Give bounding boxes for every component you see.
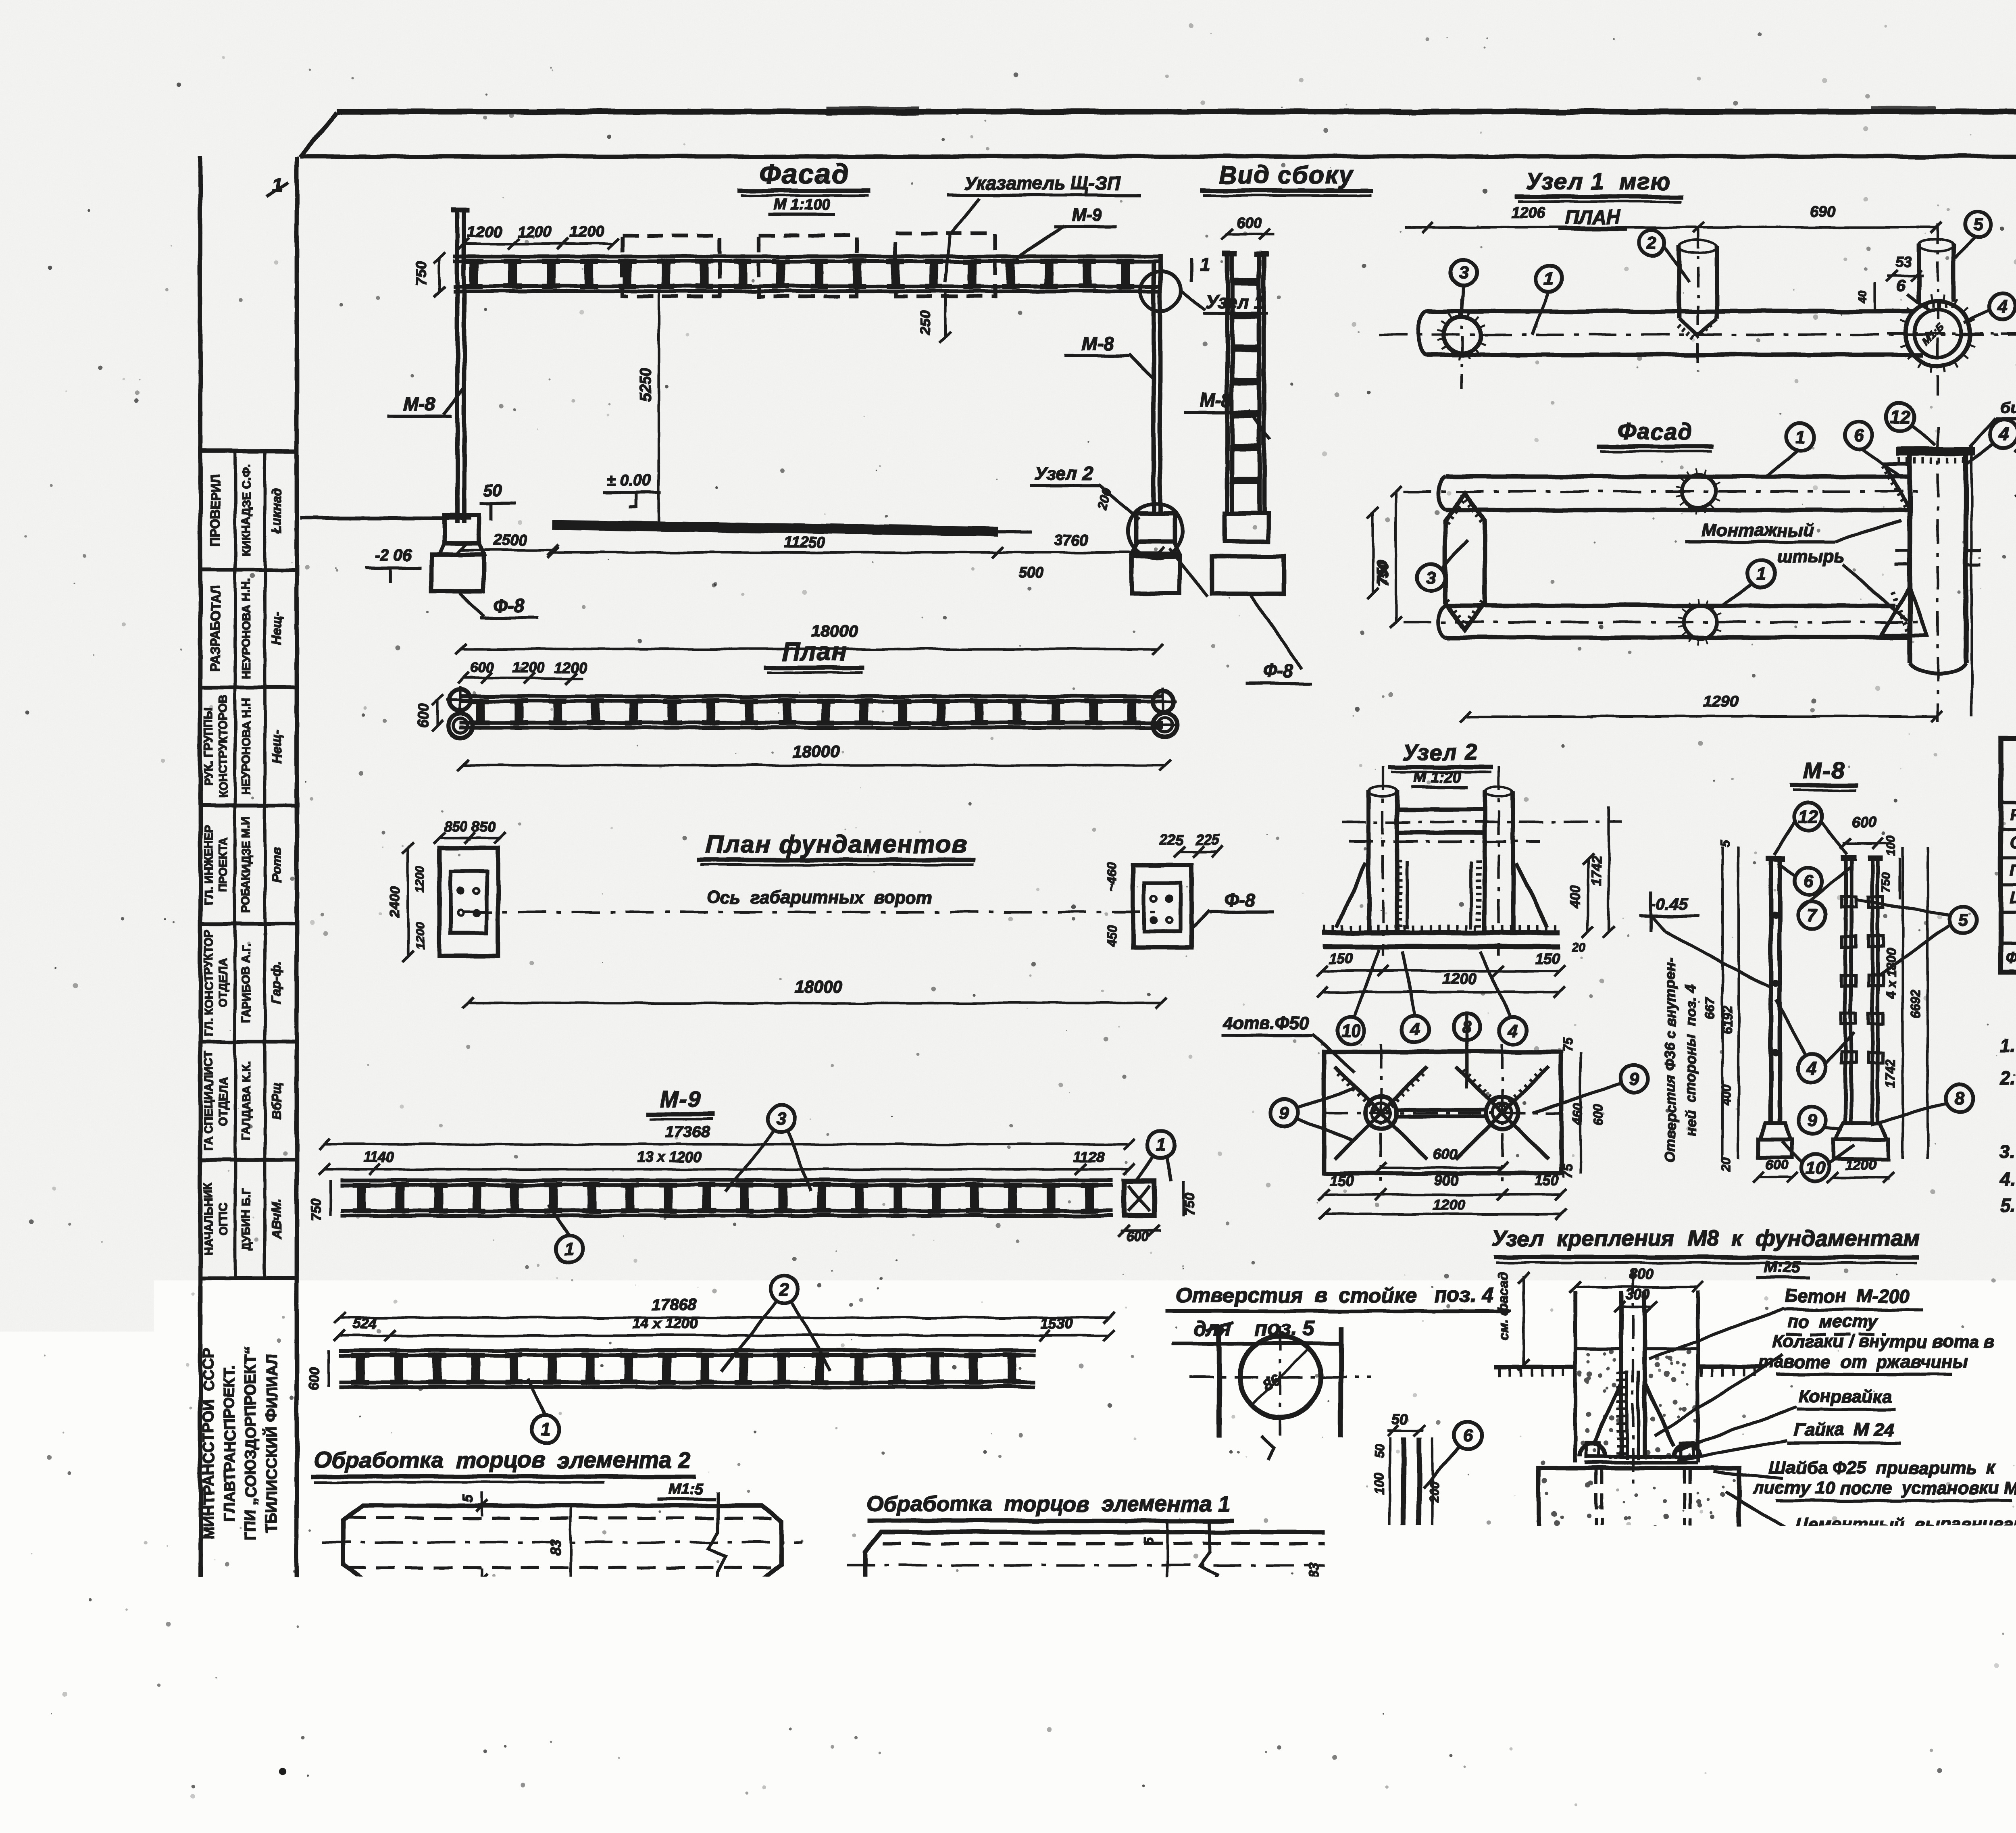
svg-text:7: 7 [1807,905,1818,925]
uzel1 pipe body [1427,309,1914,314]
svg-text:50: 50 [1372,1444,1387,1459]
sheet outer top border [337,109,2016,115]
fasad-detail dim 1290 [1465,715,1937,718]
fasad-detail right column pipe [1908,455,1912,663]
uzel2 anchor sleeves hatched [1397,861,1402,926]
svg-text:Łикнад: Łикнад [269,487,284,533]
svg-text:ОГПС: ОГПС [217,1203,230,1235]
svg-text:План фундаментов: План фундаментов [706,831,968,858]
fasad sign plate 3 (dashed) [896,233,995,296]
sheet outer left border [198,156,203,1716]
svg-text:850: 850 [444,818,468,835]
svg-text:750: 750 [308,1198,324,1221]
svg-text:АВчМ.: АВчМ. [269,1199,284,1239]
fasad dim 5250 rotated [658,291,660,524]
svg-text:Ось габаритных ворот: Ось габаритных ворот [706,887,932,907]
М-8 balloon 10 [1801,1154,1829,1181]
side view column rungs [1231,279,1260,286]
uzel1 middle pipe stub [1677,246,1681,319]
element-1 break mark [1200,1520,1218,1613]
svg-text:Колгаки / внутри вота в: Колгаки / внутри вота в [1773,1332,1995,1352]
svg-text:НАЧАЛЬНИК: НАЧАЛЬНИК [202,1182,215,1256]
svg-text:Отверстия в стойке поз. 4: Отверстия в стойке поз. 4 [1176,1284,1494,1307]
svg-text:1: 1 [564,1239,574,1259]
svg-text:ГЛ. КОНСТРУКТОР: ГЛ. КОНСТРУКТОР [202,929,215,1037]
svg-text:600: 600 [1433,1146,1458,1162]
svg-text:1200: 1200 [467,224,502,241]
svg-text:ТК: ТК [1758,1580,1804,1621]
svg-text:Ригель М-9: Ригель М-9 [2010,806,2016,824]
svg-text:М1:5: М1:5 [668,1481,703,1498]
uzel-f threaded rod hatched [1625,1371,1629,1460]
element-1 centerline [847,1564,1435,1566]
svg-text:17868: 17868 [1057,1636,1100,1653]
leader from node2 to foundation [1169,548,1208,597]
uzel2 balloons 10 4 8 4 [1337,1017,1364,1044]
uzel-f soil hatch right [1702,1368,1754,1377]
uzel2 centerlines [1342,821,1622,823]
svg-text:слой: слой [1799,1536,1842,1556]
М-8 right column ladder rails [1843,861,1847,1123]
svg-text:КОНСТРУКТОРОВ: КОНСТРУКТОРОВ [217,695,230,798]
uzel1 right big circle [1906,301,1970,366]
svg-text:листу 10 после установки М-8: листу 10 после установки М-8 [1752,1478,2016,1498]
svg-text:РМ- 4. Конструкция рамы д: РМ- 4. Конструкция рамы для навески [1867,1633,2016,1653]
svg-text:тавоте от ржавчины: тавоте от ржавчины [1758,1352,1968,1372]
svg-text:53: 53 [1895,254,1912,270]
svg-text:М-9: М-9 [660,1086,701,1112]
right foundation plan inner [1144,883,1181,931]
uzel1 top dim line [1404,226,1936,229]
svg-text:500: 500 [1019,564,1043,581]
svg-text:600: 600 [306,1368,322,1391]
svg-text:6: 6 [1463,1426,1473,1446]
svg-text:МИНТРАНССТРОЙ СССР: МИНТРАНССТРОЙ СССР [199,1348,217,1539]
svg-text:250: 250 [917,310,934,335]
fasad beam М-9 (ladder) [453,254,1158,258]
title block ТК cell [1808,1571,1813,1677]
fasad-detail balloon 4 [1990,420,2016,448]
svg-text:10: 10 [829,1599,845,1615]
fasad dim 2500 [461,549,553,551]
fasad dim 18000 [461,648,1158,650]
svg-text:690: 690 [1810,204,1835,221]
uzel2 plan balloons 9 [1270,1099,1298,1127]
fasad-detail column break bottom [1910,663,1966,674]
beam-2 balloon 2 with leaders [771,1276,798,1303]
svg-text:750: 750 [413,262,430,286]
svg-text:4. Чертеж фундамента см. лис: 4. Чертеж фундамента см. лист № 71. [1999,1169,2016,1189]
svg-text:4: 4 [1999,424,2009,444]
uzel2 right gusset [1516,863,1547,927]
uzel2 dim 400 rotated [1587,859,1589,931]
element-2 centerline [323,1541,802,1543]
svg-text:КИКНАДЗЕ С.Ф.: КИКНАДЗЕ С.Ф. [240,464,253,556]
М-8 balloon 5 with leaders [1949,906,1977,934]
left foundation plan outer [439,848,498,956]
svg-text:5: 5 [1718,839,1733,847]
svg-text:Узел крепления М8 к фундам: Узел крепления М8 к фундаментам [1491,1225,1920,1251]
uzel-f block dashed verticals [1594,1468,1597,1586]
stamp column row dividers [200,567,297,571]
node 1 circle on fasad [1140,271,1181,311]
uzel2 plan centerlines [1324,1112,1561,1114]
svg-text:1200: 1200 [554,659,587,676]
svg-text:50.5: 50.5 [1427,1527,1441,1553]
beam-2 ladder [339,1348,1035,1352]
fasad-detail vertical tick right [1970,446,1973,717]
svg-text:17848: 17848 [1059,1608,1102,1625]
svg-text:~460: ~460 [1104,862,1119,892]
svg-text:5: 5 [460,1593,476,1601]
svg-text:5: 5 [460,1494,476,1502]
fasad-detail lower gusset [1881,587,1926,635]
svg-text:Фундамент Ф-8: Фундамент Ф-8 [2006,950,2016,966]
uzel1 left circle vertical centerline [1461,298,1463,389]
side view column caps [1223,251,1237,257]
svg-text:ОТДЕЛА: ОТДЕЛА [217,958,230,1007]
М-9 balloon 3 with leaders [768,1105,796,1133]
svg-text:Стойка М-8: Стойка М-8 [2010,834,2016,852]
uzel1 right centerlines [1937,224,1939,399]
leader from Указатель to sign plate [946,198,980,282]
svg-text:Узел 1: Узел 1 [1206,292,1264,312]
fasad right column М-8 [1152,261,1156,513]
element-2 break mark [708,1492,726,1593]
svg-text:100: 100 [1885,836,1898,856]
svg-text:Конрвайка: Конрвайка [1799,1387,1891,1406]
svg-text:50: 50 [484,482,502,500]
uzel-f leaders to labels [1649,1309,1783,1359]
svg-text:200: 200 [1427,1481,1441,1503]
svg-text:9: 9 [1279,1103,1289,1123]
svg-text:Нещ-: Нещ- [269,730,284,763]
fasad-detail balloon 6 [1845,422,1872,449]
sheet top-left fold diagonal [300,112,337,157]
svg-text:см. фасад: см. фасад [1496,1272,1511,1341]
post section vertical lines [1217,1327,1222,1437]
plate-6 balloon 6 [1454,1422,1482,1449]
svg-text:4: 4 [1807,1058,1817,1078]
svg-text:Узел 1 мгю: Узел 1 мгю [1526,169,1672,195]
stamp column sub-dividers [233,451,237,1278]
svg-text:450: 450 [1104,925,1119,947]
svg-text:Ротв: Ротв [269,847,284,882]
svg-text:1128: 1128 [1073,1149,1104,1165]
svg-text:13 x 1200: 13 x 1200 [637,1149,702,1165]
svg-text:20: 20 [336,1622,353,1638]
fasad-detail weld circle lower [1684,606,1717,639]
svg-text:2: 2 [1647,233,1657,253]
svg-text:по месту: по месту [1788,1312,1879,1331]
svg-text:9: 9 [1629,1069,1639,1089]
svg-text:М-9: М-9 [1071,205,1102,225]
М-8 left column holes [1773,913,1778,918]
side view column rails [1225,256,1230,513]
svg-text:83: 83 [1306,1563,1322,1578]
svg-text:5: 5 [1958,910,1968,930]
svg-text:М 1:20: М 1:20 [1414,769,1461,786]
svg-text:М-8: М-8 [1081,333,1114,354]
uzel-f washer plate rows [1585,1454,1697,1458]
side view dim 750 rotated [1372,513,1374,594]
svg-text:Бетон М-200: Бетон М-200 [1784,1285,1910,1306]
svg-text:900: 900 [1434,1172,1458,1189]
svg-text:400: 400 [1719,1084,1733,1106]
М-9 balloon 1 with leader [556,1235,583,1263]
uzel-f pipe [1619,1291,1624,1456]
uzel1 left weld circle [1444,317,1480,353]
fasad right foundation pedestal [1136,513,1175,542]
svg-text:42.5: 42.5 [336,1591,365,1607]
svg-text:ДУБИН Б.Г: ДУБИН Б.Г [240,1188,253,1250]
fasad-detail weld circle upper [1682,475,1715,508]
svg-text:Узел 2: Узел 2 [1402,739,1479,765]
svg-text:6: 6 [1896,277,1906,295]
node 2 circle on fasad [1128,503,1183,558]
fasad left foundation pedestal [444,515,479,544]
fasad left column М-8 [455,209,460,523]
svg-text:Шайба Ф 25: Шайба Ф 25 [2010,889,2016,906]
fasad sign plate 1 (dashed) [622,235,720,296]
post section circle [1240,1337,1320,1417]
svg-text:Шайба Ф25 приварить к: Шайба Ф25 приварить к [1769,1458,1997,1478]
left foundation plan inner [450,871,487,933]
fasad-detail balloon 3 [1417,564,1445,591]
svg-text:Отверстие Ф17: Отверстие Ф17 [1332,1625,1491,1646]
svg-text:150: 150 [1330,1172,1354,1189]
svg-text:20: 20 [1571,940,1586,954]
svg-text:524: 524 [353,1315,377,1332]
foundation plan centerline [464,911,1161,913]
svg-text:ВбРщ: ВбРщ [269,1082,284,1120]
uzel1 middle centerline [1697,229,1699,371]
svg-text:1973г: 1973г [1752,1643,1808,1666]
svg-text:ГЛАВТРАНСПРОЕКТ.: ГЛАВТРАНСПРОЕКТ. [221,1365,238,1522]
svg-text:150: 150 [1535,1172,1559,1189]
svg-text:42 5: 42 5 [754,1591,783,1607]
element-1 bar outline [865,1532,1423,1599]
svg-text:9: 9 [1807,1110,1817,1130]
sostav header lines [2001,800,2016,804]
svg-text:указательных знаков: указательных знаков [1945,1656,2016,1675]
svg-text:1: 1 [1156,1135,1166,1155]
svg-text:Обработка торцов элемента 2: Обработка торцов элемента 2 [314,1447,690,1473]
svg-text:Ф-8: Ф-8 [1225,889,1256,910]
sostav row lines [2001,828,2016,831]
uzel-f right cap dome [1674,1443,1700,1456]
right foundation plan outer [1133,865,1191,948]
svg-text:12: 12 [1799,807,1818,827]
svg-text:6: 6 [1148,1608,1162,1616]
svg-text:225: 225 [1159,831,1184,848]
svg-text:Д О Р О Ж Н Ы Е З Н А К И: Д О Р О Ж Н Ы Е З Н А К И [1918,1590,2016,1614]
svg-text:-0.45: -0.45 [1651,895,1688,913]
fasad dim 11250 [553,551,998,554]
svg-text:750: 750 [1374,560,1390,585]
svg-text:Отверстия Ф36 с внутрен-: Отверстия Ф36 с внутрен- [1662,958,1679,1163]
post section centerlines [1189,1376,1371,1378]
svg-text:600: 600 [1237,215,1261,231]
svg-text:М-8: М-8 [1804,758,1845,783]
svg-text:5: 5 [1141,1537,1156,1545]
svg-text:150: 150 [1329,950,1353,967]
svg-text:Гар-ф.: Гар-ф. [269,962,284,1004]
svg-text:1200: 1200 [570,224,604,241]
svg-text:РОБАКИДЗЕ М.И: РОБАКИДЗЕ М.И [240,816,253,913]
post section bottom break [1262,1435,1274,1460]
svg-text:ПРОВЕРИЛ: ПРОВЕРИЛ [208,474,223,546]
fasad-detail balloon 1 upper [1787,423,1814,451]
svg-text:6692: 6692 [1908,989,1923,1018]
plan right end circles [1152,691,1173,712]
svg-text:6192: 6192 [1720,1006,1735,1034]
plate-6 vertical plate lines [1401,1437,1406,1575]
svg-text:2500: 2500 [493,532,527,549]
svg-text:ТБИЛИССКИЙ ФИЛИАЛ: ТБИЛИССКИЙ ФИЛИАЛ [262,1354,280,1533]
svg-text:3760: 3760 [1054,532,1089,549]
svg-text:4: 4 [1997,297,2007,317]
svg-text:± 0.00: ± 0.00 [607,472,652,489]
svg-text:Гайка М 24: Гайка М 24 [1794,1420,1893,1439]
fasad-detail top plate [1896,447,1975,456]
foundation plan dim 18000 [468,1002,1161,1004]
svg-text:Узел 2: Узел 2 [1034,463,1093,484]
svg-text:600: 600 [1766,1157,1789,1173]
svg-text:517: 517 [552,1587,578,1604]
svg-text:17868: 17868 [652,1296,697,1313]
svg-text:1200: 1200 [1443,971,1477,987]
svg-text:460: 460 [1570,1103,1585,1125]
uzel2 anchor plan tie bar [1397,1108,1486,1111]
ground line (thick) [553,525,998,531]
svg-text:НЕУРОНОВА Н.Н: НЕУРОНОВА Н.Н [240,698,253,796]
svg-text:40: 40 [1856,290,1868,303]
sheet inner bottom border [297,1675,2016,1680]
svg-text:1742: 1742 [1883,1059,1897,1087]
uzel2 right pipe [1483,790,1487,931]
М-8 balloon 9 [1798,1106,1826,1133]
uzel-f block speckles [1542,1478,1738,1581]
fasad-detail upper pipe [1445,475,1910,479]
svg-text:18000: 18000 [792,742,839,761]
svg-text:600: 600 [415,704,431,728]
fasad sign plate 2 (dashed) [759,235,856,296]
fasad-detail left connector (поз.3) [1445,493,1485,630]
uzel1 balloon 5 [1965,211,1991,237]
svg-text:1: 1 [1544,269,1554,289]
svg-text:Фасад: Фасад [1617,419,1693,445]
svg-text:83: 83 [547,1539,564,1556]
left foundation dim 2400 rotated [407,848,409,956]
svg-text:11250: 11250 [784,534,825,551]
М-8 balloon 8 [1946,1085,1973,1112]
svg-text:1200: 1200 [1845,1157,1876,1173]
fasad-detail centerlines [1403,490,1927,493]
uzel-f pipe centerline [1632,1270,1634,1484]
svg-text:Монтажный: Монтажный [1702,521,1814,540]
svg-text:5. Деталь крепления указате: 5. Деталь крепления указателей к риге- [2000,1195,2016,1216]
svg-text:10: 10 [1341,1021,1361,1041]
svg-text:1: 1 [1795,427,1805,447]
svg-text:-2 06: -2 06 [375,546,412,564]
М-9 end section square [1124,1181,1154,1216]
stamp column top line [200,449,297,454]
uzel-f right gusset [1645,1383,1674,1446]
svg-text:3: 3 [1459,263,1468,283]
svg-text:1530: 1530 [1040,1315,1073,1332]
svg-text:225: 225 [1195,831,1220,848]
svg-text:1140: 1140 [363,1149,394,1165]
title block main divider [1810,1623,2016,1627]
М-9 dim 17368 [324,1143,1129,1146]
sheet outer bottom border [200,1714,2016,1719]
svg-text:6: 6 [1854,426,1864,446]
plan left end circles [449,689,470,710]
svg-text:400: 400 [1568,886,1583,909]
svg-text:750: 750 [1880,873,1893,893]
svg-text:100: 100 [1372,1473,1387,1495]
svg-text:Указатель Щ-ЗП: Указатель Щ-ЗП [964,173,1120,194]
fasad-detail dim 750 rotated [1395,492,1397,622]
svg-text:Вид сбоку: Вид сбоку [1219,161,1354,189]
right foundation plan bolts [1151,896,1157,902]
svg-text:3: 3 [777,1109,787,1129]
М-9 end section balloon 1 [1148,1131,1175,1159]
uzel1 right pipe stub [1917,244,1921,302]
svg-text:ГЛ. ИНЖЕНЕР: ГЛ. ИНЖЕНЕР [202,825,215,905]
svg-text:150: 150 [1535,950,1560,967]
element-2 dashed edge lines [347,1516,780,1520]
uzel2 left gusset [1337,863,1366,927]
beam-2 dim 17868 [339,1316,1109,1319]
svg-text:М 1:100: М 1:100 [773,196,829,213]
svg-text:РУК. ГРУППЫ: РУК. ГРУППЫ [202,707,215,785]
uzel-f left cap dome [1580,1443,1606,1456]
dark smudge top center [827,106,919,115]
fasad-detail column joint gap [1895,549,1910,552]
svg-text:1. Трубы приняты по ГОСТ 87: 1. Трубы приняты по ГОСТ 8732-70. [2000,1035,2016,1056]
svg-text:850: 850 [472,818,496,835]
svg-text:М-8: М-8 [1200,390,1232,410]
svg-text:600: 600 [1852,813,1876,830]
svg-text:1290: 1290 [1703,693,1739,710]
uzel2 dim 1742 rotated [1608,806,1610,931]
svg-text:17368: 17368 [665,1123,710,1141]
svg-text:1: 1 [541,1420,550,1439]
uzel-f foundation block [1539,1468,1739,1586]
svg-text:Нещ-: Нещ- [269,612,284,645]
svg-text:ней стороны поз. 4: ней стороны поз. 4 [1682,985,1699,1136]
svg-text:4 x 1800: 4 x 1800 [1884,949,1898,1000]
М-8 balloon 12 [1795,803,1822,830]
plate-6 hole [1406,1541,1416,1552]
fasad-detail balloon 1 lower [1747,560,1775,587]
svg-text:2: 2 [779,1280,789,1300]
svg-text:667: 667 [1703,996,1717,1019]
svg-text:Цементный выравнивающий: Цементный выравнивающий [1795,1514,2016,1534]
М-9 beam ladder [341,1178,1113,1182]
uzel2 left pipe [1367,790,1371,931]
svg-text:20: 20 [1719,1157,1733,1172]
uzel-f pit walls [1573,1291,1577,1462]
svg-text:бш= 5: бш= 5 [2000,399,2016,417]
svg-text:4: 4 [1508,1021,1518,1041]
svg-text:1742: 1742 [1589,856,1604,886]
fasad-detail column centerline [1937,427,1939,722]
uzel2 baseplate with weld comb [1322,930,1560,935]
svg-text:4: 4 [1410,1019,1420,1039]
